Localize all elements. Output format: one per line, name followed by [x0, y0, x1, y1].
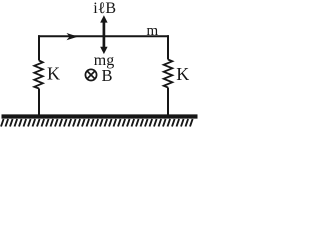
ground hatching	[1, 119, 193, 127]
wire: left vertical lower segment	[38, 89, 40, 116]
wire: left vertical upper segment	[38, 35, 40, 60]
spring K (left)	[34, 61, 43, 89]
field symbol B into page (circle with cross)	[85, 69, 96, 80]
ground	[2, 114, 198, 118]
svg-text:K: K	[47, 64, 60, 84]
rod (conducting bar, mass m)	[38, 35, 169, 37]
svg-text:m: m	[147, 23, 159, 39]
current direction arrowhead on rod	[67, 33, 79, 40]
force arrow shaft (iℓB up / mg down)	[103, 20, 106, 49]
wire: right vertical upper segment	[167, 35, 169, 59]
spring K (right)	[164, 60, 173, 88]
wire: right vertical lower segment	[167, 88, 169, 116]
svg-text:iℓB: iℓB	[93, 0, 116, 17]
arrowhead down (force mg)	[100, 47, 107, 54]
svg-text:K: K	[176, 64, 189, 84]
svg-text:B: B	[102, 66, 113, 85]
arrowhead up (force iℓB)	[100, 15, 107, 22]
